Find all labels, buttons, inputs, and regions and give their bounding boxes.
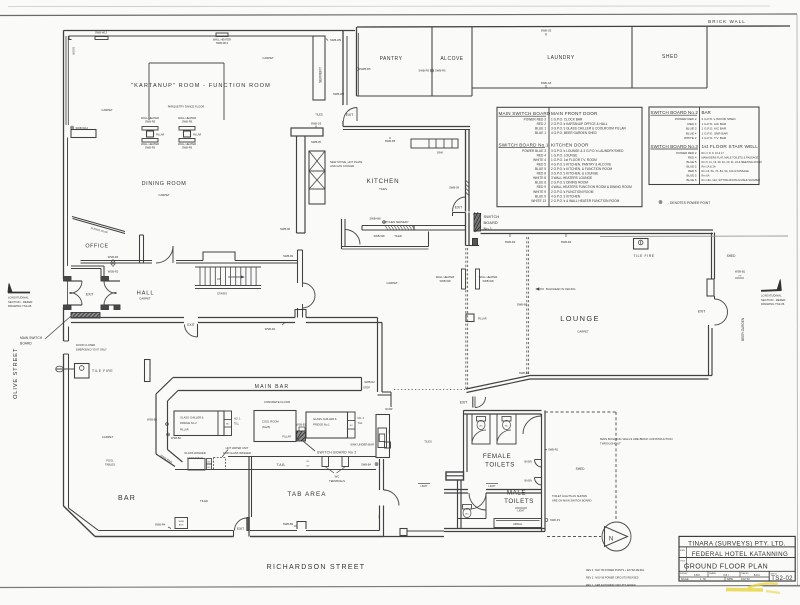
svg-text:DOOR: DOOR [72, 47, 76, 55]
svg-text:2 G.P.O.'s DINING ROOM: 2 G.P.O.'s DINING ROOM [551, 181, 588, 185]
svg-text:2 G.P.O.'s WOOD SHED: 2 G.P.O.'s WOOD SHED [702, 117, 737, 121]
shed east wall [706, 27, 708, 88]
toilets west wall lower [458, 480, 462, 529]
kitchen exit door [453, 197, 466, 216]
carpet label north center [262, 56, 274, 60]
label SWB-R4 jukebox [155, 523, 171, 529]
svg-text:MAIN FRONT DOOR: MAIN FRONT DOOR [551, 111, 598, 116]
svg-text:WALL HEATER: WALL HEATER [178, 116, 196, 120]
svg-text:EXIT: EXIT [698, 310, 706, 314]
label SWB-05 under cap [311, 140, 322, 144]
glass chiller fridge no2 [174, 411, 224, 436]
main building walls note [600, 437, 673, 446]
toilets exit label [460, 401, 468, 405]
bar south-west corner wall [64, 506, 99, 537]
labels SWB-R3 SWB-R4 lounge wall [505, 234, 572, 244]
svg-text:LIGHT: LIGHT [517, 510, 525, 513]
svg-text:CARPET: CARPET [102, 435, 114, 439]
svg-text:TOILET LIGHTS AS SHOWN: TOILET LIGHTS AS SHOWN [552, 494, 587, 498]
svg-text:TILES: TILES [424, 440, 432, 444]
pillar bar area [145, 360, 151, 382]
svg-text:RED 5: RED 5 [688, 169, 697, 173]
svg-text:SURVEY: SURVEY [680, 573, 688, 575]
hall north wall east segment [176, 261, 297, 264]
dumbwaiter [376, 415, 390, 458]
tile fire flue [56, 366, 75, 372]
lounge east wall upper [712, 233, 715, 280]
svg-text:WHITE 13: WHITE 13 [531, 199, 546, 203]
label tiled bar [200, 499, 208, 503]
svg-text:UP: UP [217, 277, 221, 281]
label SHED lounge east [727, 254, 737, 258]
svg-text:WC: WC [479, 426, 483, 428]
title row survey [680, 573, 700, 577]
svg-text:SWITCH BOARD No.3: SWITCH BOARD No.3 [651, 144, 699, 149]
label swb-r2 toilets [545, 448, 559, 452]
svg-text:BO: BO [307, 461, 310, 463]
svg-text:DINING ROOM: DINING ROOM [142, 181, 187, 187]
svg-text:SWITCH: SWITCH [484, 214, 500, 219]
label wsb-b1 pillar [296, 423, 307, 432]
svg-text:DOOR CLOSED: DOOR CLOSED [76, 343, 95, 347]
label hot water unit [223, 446, 251, 455]
svg-text:TITLE: TITLE [680, 561, 686, 563]
svg-text:BLUE 1: BLUE 1 [535, 131, 546, 135]
exit door pantry corridor [344, 108, 358, 122]
label WSB-R2 notch [265, 323, 285, 332]
label SWB-R5 right of pp [435, 69, 446, 73]
svg-text:SINK UNDER BAR: SINK UNDER BAR [350, 443, 374, 447]
chiller no2 till cells [224, 411, 232, 436]
heater on north wall 2 [213, 33, 231, 45]
svg-text:1 G.P.O. 1st FLOOR T.V. ROOM: 1 G.P.O. 1st FLOOR T.V. ROOM [551, 158, 597, 162]
svg-text:POWER RED 2: POWER RED 2 [675, 117, 697, 121]
kitchen T wall cap [291, 128, 323, 136]
dotted step edge lounge [394, 389, 466, 391]
alcove/laundry divider wall [471, 27, 473, 96]
svg-text:WALL HEATER: WALL HEATER [479, 275, 498, 279]
svg-text:1 G.P.O. A/C BAR: 1 G.P.O. A/C BAR [702, 127, 727, 131]
label tile fire bar [92, 369, 113, 373]
svg-text:PANTRY: PANTRY [380, 56, 403, 62]
svg-text:DRAWN: DRAWN [709, 572, 716, 575]
label WSB-R3 [108, 255, 119, 262]
svg-text:SWB-09: SWB-09 [449, 186, 460, 190]
label pillar sb2 [282, 436, 291, 439]
svg-text:WALL HEATER: WALL HEATER [141, 142, 159, 146]
page border bottom line [0, 586, 800, 588]
title row drawn [709, 572, 729, 577]
svg-text:SWB-R2: SWB-R2 [364, 380, 375, 384]
svg-text:2 G.P.O.'s & WALL HEATER FUNCT: 2 G.P.O.'s & WALL HEATER FUNCTION ROOM [551, 199, 620, 203]
svg-text:SWB-W8: SWB-W8 [373, 234, 385, 238]
servery-dining door [345, 230, 360, 245]
svg-text:SWB-R9: SWB-R9 [182, 146, 193, 150]
svg-text:3 G.P.O.'s LOUNGE & 3 G.P.O.'s: 3 G.P.O.'s LOUNGE & 3 G.P.O.'s LAUNDRY/S… [551, 149, 624, 153]
carpet label function room [101, 108, 113, 112]
svg-text:BO: BO [226, 424, 229, 426]
svg-text:SCALE: SCALE [681, 578, 689, 581]
title row scale [681, 578, 706, 581]
svg-text:WC: WC [505, 426, 509, 428]
legend power point [659, 201, 710, 205]
room label BAR [118, 495, 136, 502]
exit label beer garden [698, 310, 706, 314]
label SWB-08 stem bottom [280, 227, 291, 231]
step box east [385, 442, 391, 448]
svg-text:FEMALE: FEMALE [483, 453, 511, 460]
tab terminal leaders [325, 467, 346, 474]
svg-text:SHED: SHED [727, 254, 737, 258]
svg-text:(No25): (No25) [262, 425, 270, 429]
servery south wall [342, 247, 429, 250]
svg-text:EXIT: EXIT [237, 527, 244, 531]
label SWB-W9 bottom [333, 92, 345, 96]
svg-text:FRIDGE No 2: FRIDGE No 2 [180, 421, 197, 425]
street label OLIVE STREET [13, 348, 19, 399]
svg-text:Rm 6, 11, 16, 29, F2, 20, 21,: Rm 6, 11, 16, 29, F2, 20, 21, 24 & MEETI… [702, 160, 762, 164]
svg-text:LIGHT: LIGHT [420, 485, 428, 488]
exit label hall south [187, 323, 194, 327]
tab east door [384, 490, 400, 506]
svg-text:PILLAR: PILLAR [193, 134, 202, 137]
svg-text:BULKHEAD IN CEILING: BULKHEAD IN CEILING [546, 287, 575, 291]
svg-text:SWB-R2: SWB-R2 [548, 448, 559, 452]
label SWB-G5 near T wall [311, 122, 322, 128]
svg-text:WALL HEATER: WALL HEATER [213, 38, 231, 42]
svg-text:Rm 3, 8, 9, 10 & 17: Rm 3, 8, 9, 10 & 17 [702, 151, 725, 155]
svg-text:RAMP: RAMP [385, 408, 393, 411]
label main switch board [20, 336, 43, 346]
ramp step [378, 392, 393, 411]
lounge east wall lower [709, 325, 713, 376]
svg-text:RED 5: RED 5 [537, 162, 547, 166]
svg-text:3 G.P.O.'s GLASS CHILLER & COO: 3 G.P.O.'s GLASS CHILLER & COOLROOM PILL… [551, 127, 626, 131]
label SWB-G5 laundry bottom [541, 81, 552, 88]
tab terminal cells [322, 457, 349, 467]
main bar counter outline [156, 378, 362, 467]
chiller no1 till cells [348, 412, 356, 438]
svg-text:SWB-W8: SWB-W8 [482, 279, 494, 283]
svg-text:MANAGERS FLAT, MALE TOILETS &: MANAGERS FLAT, MALE TOILETS & PASSAGE [702, 155, 759, 159]
svg-text:BO: BO [378, 515, 380, 518]
svg-text:BLUE 5: BLUE 5 [687, 164, 697, 168]
title sheet number [771, 576, 793, 582]
parquetry dance floor outline [149, 63, 224, 120]
svg-text:PILLAR: PILLAR [478, 318, 487, 321]
svg-text:RED 4: RED 4 [687, 122, 696, 126]
kitchen servery bench [362, 226, 466, 231]
svg-text:SWB-R4: SWB-R4 [155, 523, 166, 527]
label door closed [76, 343, 107, 352]
svg-text:WSB-R3: WSB-R3 [108, 255, 119, 259]
label wc terminals [329, 475, 345, 484]
vestibule right door [104, 281, 120, 305]
svg-text:GROUND FLOOR PLAN: GROUND FLOOR PLAN [684, 563, 768, 570]
title label [680, 561, 686, 563]
svg-text:SWB-G5: SWB-G5 [311, 122, 322, 126]
black block below wall [473, 239, 478, 246]
label SWB-09 [449, 186, 460, 190]
svg-text:Rm 6A: Rm 6A [702, 174, 710, 178]
label TILED near T wall [315, 113, 323, 117]
lounge north wall east [481, 230, 714, 234]
table main switch board [497, 107, 642, 206]
svg-text:WHITE 2: WHITE 2 [684, 136, 697, 140]
svg-text:BLUE 4: BLUE 4 [686, 131, 697, 135]
svg-text:POWER RED 3: POWER RED 3 [524, 118, 547, 122]
svg-text:BO: BO [208, 467, 211, 469]
svg-text:ARE ON MAIN SWITCH BOARD: ARE ON MAIN SWITCH BOARD [552, 499, 591, 503]
label WSB-R2 office [108, 264, 119, 274]
function room west wall window triple [64, 31, 69, 126]
label WSB-B1 east [735, 270, 746, 279]
label SWB-W9 top [326, 38, 342, 42]
svg-text:BAR: BAR [118, 495, 136, 502]
rev note 2 [586, 577, 639, 580]
svg-text:B.D.C: B.D.C [754, 575, 760, 577]
svg-text:WSB-B4: WSB-B4 [147, 418, 158, 422]
kitchen north wall [343, 127, 470, 130]
beer garden doors [715, 296, 728, 325]
dining east wall [342, 219, 346, 249]
wall heater lounge 2 [476, 269, 498, 289]
svg-text:WSB-R2: WSB-R2 [108, 270, 119, 274]
svg-text:JUKE: JUKE [178, 521, 184, 523]
exit label bar south [237, 527, 244, 531]
svg-text:TILED: TILED [394, 234, 402, 238]
tab counter [175, 457, 376, 470]
label SWB-B3 south [283, 522, 297, 526]
bottom wall toilets west stub [384, 529, 445, 537]
svg-text:AND GAS COOLER: AND GAS COOLER [330, 164, 354, 168]
female wc stall 2 [497, 414, 516, 444]
svg-text:WC: WC [465, 514, 469, 516]
kitchen T wall stem [297, 136, 306, 233]
svg-text:BLUE 6: BLUE 6 [535, 181, 546, 185]
label tile fire lounge [633, 254, 654, 258]
label SWB-G5 laundry top [541, 29, 552, 36]
svg-text:1 G.P.O. LOUNGE: 1 G.P.O. LOUNGE [551, 153, 577, 157]
svg-text:PILLAR: PILLAR [282, 436, 291, 439]
exit label pantry corridor [346, 113, 354, 117]
rev note 3 [586, 569, 645, 572]
bo boxes under bar [207, 459, 212, 470]
stairs [195, 267, 261, 289]
page border top faint line [8, 5, 770, 8]
svg-text:CARPET: CARPET [101, 108, 113, 112]
svg-text:Rm 13A, 12A, SITTING ROOM & MA: Rm 13A, 12A, SITTING ROOM & MALE SHOWER [702, 178, 761, 182]
corridor west wall [466, 213, 480, 246]
svg-text:TILED: TILED [200, 499, 208, 503]
label sink under bar [350, 443, 374, 447]
svg-text:GLASS CHILLER &: GLASS CHILLER & [313, 417, 337, 421]
svg-text:SWB-R3: SWB-R3 [505, 240, 516, 244]
label main bar [255, 384, 290, 390]
function room north wall outer [64, 30, 356, 32]
glass chiller fridge no1 [306, 412, 348, 438]
west wall of pantry corridor [343, 31, 347, 106]
toilets west wall [464, 411, 468, 473]
stair landing bump [203, 252, 235, 261]
svg-text:RED 2: RED 2 [537, 122, 547, 126]
title client label [680, 550, 686, 552]
hall north door [156, 246, 173, 263]
svg-text:CARPET: CARPET [158, 193, 170, 197]
svg-text:BLUE 3: BLUE 3 [686, 127, 697, 131]
label parquetry dance floor [168, 105, 205, 109]
svg-text:REV 1 : FEB 94 POWER CIRCUITS: REV 1 : FEB 94 POWER CIRCUITS ADDED [586, 584, 636, 587]
carpet label lounge [577, 330, 589, 334]
label DOOR vertical [72, 47, 76, 55]
svg-text:TABLES: TABLES [105, 463, 115, 467]
svg-text:SWB-W8: SWB-W8 [369, 217, 381, 221]
svg-text:STEP: STEP [363, 386, 370, 390]
svg-text:KITCHEN SERVERY: KITCHEN SERVERY [383, 220, 408, 224]
bar west wall lower [64, 354, 69, 508]
svg-text:DATE: DATE [727, 578, 733, 581]
section marker left [8, 284, 30, 293]
toilets north wall [464, 411, 542, 415]
svg-text:RED 9: RED 9 [537, 185, 547, 189]
bulkhead dashed line 1 [466, 248, 468, 389]
corridor wall below exit [342, 121, 344, 127]
toilet lights note [552, 494, 591, 503]
svg-text:SWB-G5: SWB-G5 [541, 29, 552, 33]
sliding door diagonal [72, 217, 125, 234]
toilets divider wall [444, 490, 542, 494]
urinal [494, 519, 542, 528]
label TILED servery [394, 234, 402, 238]
svg-text:TILE FIRE: TILE FIRE [633, 254, 654, 258]
svg-text:BEER GARDEN: BEER GARDEN [741, 317, 745, 341]
svg-text:"KARTANUP" ROOM - FUNCTION ROO: "KARTANUP" ROOM - FUNCTION ROOM [131, 83, 271, 89]
svg-text:SWB-B3: SWB-B3 [517, 303, 528, 307]
svg-text:STAIRS: STAIRS [217, 292, 227, 296]
power point and label SWB-W12 [71, 126, 89, 130]
female wc stall 1 [472, 414, 490, 444]
pillar bump west wall [71, 130, 96, 138]
room label ALCOVE [440, 56, 463, 62]
svg-text:FRIDGE No 1: FRIDGE No 1 [313, 423, 330, 427]
bar north wall east segment [306, 318, 382, 323]
wall notch WSB-R2 [295, 310, 306, 318]
svg-text:SWB-R9: SWB-R9 [182, 120, 193, 124]
svg-text:BLUE 5: BLUE 5 [687, 160, 697, 164]
svg-text:SHED: SHED [576, 467, 586, 471]
function room north wall inner [69, 36, 313, 40]
vestibule door stubs bottom [64, 305, 121, 310]
svg-text:WSB-B1: WSB-B1 [296, 423, 307, 427]
pillar hatch sb2 [297, 431, 306, 441]
svg-text:TOILETS: TOILETS [485, 462, 515, 469]
svg-text:EXIT: EXIT [86, 292, 94, 296]
verandah gray line [600, 235, 788, 238]
label pool tables [105, 459, 115, 467]
svg-text:TILE FIRE: TILE FIRE [92, 369, 113, 373]
toilets east wall [542, 411, 546, 532]
label swd-p1 [545, 518, 561, 522]
power point pantry/alcove [431, 69, 434, 72]
yellow highlight 1 [726, 588, 763, 592]
pillar label chiller2 [180, 429, 189, 432]
svg-text:MAIN BAR: MAIN BAR [159, 453, 173, 464]
svg-text:LOUNGE: LOUNGE [560, 314, 600, 323]
svg-text:BO: BO [208, 462, 211, 464]
bar north wall west segment [71, 318, 184, 323]
svg-text:WHITE 4: WHITE 4 [533, 158, 546, 162]
svg-text:SINK: SINK [437, 151, 443, 155]
svg-text:PILLAR: PILLAR [180, 429, 189, 432]
bar tab divider wall [249, 457, 252, 537]
tab east wall [380, 459, 384, 490]
svg-text:1 : 50: 1 : 50 [700, 579, 706, 581]
title drawing name [684, 563, 768, 570]
svg-text:KITCHEN DOOR: KITCHEN DOOR [551, 143, 589, 148]
svg-text:REV 3 : MAY 95 POWER POINTS +: REV 3 : MAY 95 POWER POINTS + EXTRA DETA… [586, 569, 645, 572]
bar south wall west [95, 531, 234, 537]
svg-text:SWB-R4: SWB-R4 [561, 240, 572, 244]
office south wall [81, 261, 153, 264]
svg-text:EXIT: EXIT [460, 401, 468, 405]
kitchen east wall [466, 130, 470, 212]
svg-text:TINARA (SURVEYS) PTY. LTD.: TINARA (SURVEYS) PTY. LTD. [688, 540, 786, 547]
svg-text:NEW STOVE, HOT PLATE: NEW STOVE, HOT PLATE [330, 160, 362, 164]
svg-text:KITCHEN: KITCHEN [367, 178, 400, 185]
label SWB-R5 pantry wall [358, 67, 371, 71]
svg-text:TS2-02: TS2-02 [771, 576, 793, 582]
female entry door [523, 414, 541, 434]
svg-text:MAIN BAR: MAIN BAR [255, 384, 290, 390]
servery column [313, 36, 325, 100]
svg-text:EXIT: EXIT [187, 323, 194, 327]
office east wall [140, 235, 144, 263]
room label SHED top [662, 54, 678, 60]
svg-text:TAB AREA: TAB AREA [287, 491, 326, 498]
svg-text:TILL: TILL [358, 422, 364, 425]
svg-text:FEDERAL HOTEL KATANNING: FEDERAL HOTEL KATANNING [692, 551, 789, 558]
pantry/alcove divider wall [431, 27, 433, 96]
section marker right text [761, 294, 785, 307]
section marker left text [8, 296, 32, 309]
cool room [254, 411, 296, 442]
svg-text:4 G.P.O. BEER GARDEN SHED: 4 G.P.O. BEER GARDEN SHED [551, 131, 598, 135]
svg-text:JULY 93: JULY 93 [741, 579, 750, 581]
svg-text:SWB-W13: SWB-W13 [95, 31, 108, 35]
svg-text:EMERGENCY EXIT ONLY: EMERGENCY EXIT ONLY [76, 348, 107, 352]
svg-text:1 G.P.O. CLOCK BAR: 1 G.P.O. CLOCK BAR [551, 118, 583, 122]
svg-text:MAIN SWITCH BOARD: MAIN SWITCH BOARD [499, 111, 551, 116]
svg-text:FOR GLASS WASHER: FOR GLASS WASHER [223, 451, 251, 455]
title client [692, 551, 789, 558]
svg-text:K.B.I: K.B.I [724, 575, 729, 577]
label UP arrow [217, 276, 244, 281]
svg-text:RICHARDSON STREET: RICHARDSON STREET [267, 564, 366, 571]
svg-text:RED 4: RED 4 [537, 153, 547, 157]
svg-text:3 WALL HEATERS LOUNGE: 3 WALL HEATERS LOUNGE [551, 176, 592, 180]
juke box [175, 518, 188, 529]
label light male [515, 508, 527, 513]
svg-text:PARQUETRY DANCE FLOOR: PARQUETRY DANCE FLOOR [168, 105, 205, 109]
svg-text:OFFICE: OFFICE [85, 244, 108, 250]
svg-text:SWITCH BOARD No.1: SWITCH BOARD No.1 [499, 143, 549, 148]
male wc stall [458, 493, 487, 519]
label SWB-09 stairs [283, 254, 294, 258]
svg-text:BLUE 5: BLUE 5 [535, 167, 546, 171]
servery area east line [428, 232, 430, 247]
svg-text:SWB-R5: SWB-R5 [360, 67, 371, 71]
toilets south wall [444, 529, 545, 532]
